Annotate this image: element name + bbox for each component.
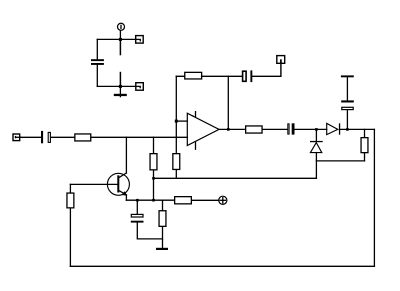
wire left branch down to C1 <box>96 39 98 59</box>
resistor R4 <box>175 197 192 204</box>
wire C3 to port P5 <box>252 64 281 76</box>
node A junction dot <box>119 38 122 41</box>
wire base corner down <box>69 184 71 192</box>
wire R1 bottom vertical <box>153 171 155 201</box>
capacitor C4 <box>288 123 295 134</box>
power rail bar <box>341 75 354 77</box>
power port plus symbol <box>219 196 227 204</box>
wire R3 to ground <box>162 227 164 250</box>
wire R8 to bottom rail <box>69 209 71 267</box>
resistor R1 <box>150 154 157 170</box>
wire bottom rail <box>70 265 374 267</box>
junction dot emitter-R1 <box>152 199 155 202</box>
wire collector vertical <box>125 137 127 173</box>
capacitor C3 <box>243 70 253 82</box>
wire long mid horizontal <box>154 177 317 179</box>
wire C5 to output row <box>346 110 348 129</box>
wire feedback left vertical <box>175 76 177 153</box>
wire R2 bottom stub <box>175 170 177 178</box>
diode D2 <box>327 123 340 134</box>
wire power bar to C5 <box>346 77 348 100</box>
wire upper horizontal <box>97 38 135 40</box>
wire non-inverting input <box>176 120 187 122</box>
node B junction dot <box>119 85 122 88</box>
junction dot D1 tap <box>315 128 318 131</box>
wire op-amp output <box>219 128 244 130</box>
wire D1 top stub <box>315 129 317 141</box>
wire feedback top row <box>176 75 184 77</box>
port P3 <box>136 83 144 91</box>
wire C6 down and right <box>137 223 162 239</box>
wire right vertical rail <box>373 129 375 266</box>
wire R9 to C3 <box>202 75 242 77</box>
junction dot emitter-C6 <box>136 199 139 202</box>
port P2 <box>136 36 144 44</box>
wire R4 to power port <box>192 199 218 201</box>
wire C6 stub <box>136 200 138 214</box>
resistor R6 <box>361 138 368 153</box>
op-amp U1 <box>187 111 219 150</box>
ground G2 <box>156 248 168 250</box>
wire R3 top stub <box>162 200 164 210</box>
diode D1 <box>310 141 323 153</box>
resistor R7 <box>75 134 91 141</box>
wire C4 to D2 <box>295 128 327 130</box>
wire R6 top stub <box>364 129 366 137</box>
wire D2 to corner <box>340 128 374 130</box>
capacitor C5 <box>341 100 354 109</box>
resistor R2 <box>173 154 180 170</box>
capacitor C2 <box>41 131 50 143</box>
capacitor C1 <box>91 59 104 65</box>
node source indicator P1 (circle with 1) <box>118 23 125 30</box>
transistor Q1 <box>107 173 129 200</box>
port P4 input <box>13 134 20 141</box>
wire R5 to C4 <box>263 128 287 130</box>
wire lower horizontal <box>97 85 135 87</box>
wire stub above node B (gap terminal) <box>119 72 121 87</box>
wire feedback right vertical <box>227 76 229 129</box>
wire C1 down to lower horizontal <box>96 65 98 87</box>
resistor R8 <box>67 193 74 208</box>
capacitor C6 <box>131 214 144 222</box>
wire P4 to C2 <box>20 136 41 138</box>
wire base <box>70 183 117 185</box>
junction dot input <box>175 120 178 123</box>
junction dot mid-horizontal left <box>152 177 155 180</box>
resistor R3 <box>159 211 166 227</box>
wire R1 top stub <box>153 137 155 153</box>
port P5 <box>277 56 285 64</box>
junction dot output <box>227 128 230 131</box>
wire C2 to R7 <box>51 136 74 138</box>
wire stub below node A (gap terminal) <box>119 39 121 55</box>
wire R6 bottom stub <box>364 153 366 161</box>
resistor R9 feedback <box>185 72 202 79</box>
wire emitter row <box>126 199 174 201</box>
wire P1 to node A <box>119 31 121 40</box>
resistor R5 <box>246 126 262 133</box>
wire D1 to R6 bottom <box>316 160 364 162</box>
junction dot C5 column <box>346 128 349 131</box>
wire D1 bottom stub <box>315 153 317 179</box>
wire main row R7 to op-amp <box>91 136 187 138</box>
ground G1 <box>114 86 127 97</box>
